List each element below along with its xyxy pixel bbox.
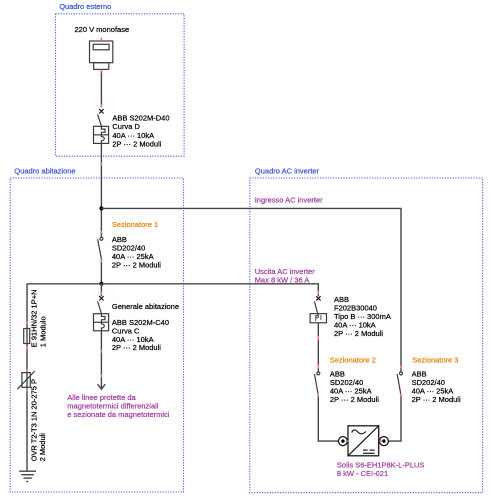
red endpoint tick below SW3 <box>400 394 402 397</box>
label SW1 values <box>112 235 161 269</box>
label SW2 values <box>330 369 379 404</box>
node junction B <box>99 282 103 286</box>
red endpoint tick below fuse F1 <box>26 346 28 350</box>
label Uscita AC inverter <box>255 267 316 285</box>
surge arrester SPD1 <box>17 371 34 389</box>
inverter right terminal <box>379 437 388 446</box>
enclosure Quadro abitazione dashed box <box>10 178 183 492</box>
enclosure Quadro esterno dashed box <box>56 14 185 156</box>
red endpoint tick above RCD D1 <box>317 291 319 294</box>
arrow to protected lines <box>98 353 106 390</box>
wire Uscita AC inverter <box>27 284 318 296</box>
svg-text:2P ··· 2 Moduli: 2P ··· 2 Moduli <box>334 329 383 338</box>
red endpoint tick below SW1 <box>100 259 102 262</box>
disconnector SW2 <box>315 372 320 396</box>
red endpoint tick above SW3 <box>400 366 402 369</box>
red endpoint tick on arrow <box>100 374 102 377</box>
energy meter M1 <box>90 41 113 69</box>
red endpoint tick above SW1 <box>100 231 102 234</box>
red endpoint tick below CB2 <box>100 350 102 353</box>
svg-text:8 kW - CEI-021: 8 kW - CEI-021 <box>337 469 388 478</box>
ground symbol <box>19 471 36 481</box>
wire SW1 to junction B <box>100 259 102 284</box>
RCD D1 lever <box>315 302 319 317</box>
breaker CB2 thermal-magnetic unit <box>94 314 109 331</box>
label CB2 values <box>112 318 169 352</box>
svg-text:2P ··· 2 Moduli: 2P ··· 2 Moduli <box>112 260 161 269</box>
red endpoint tick above meter <box>100 38 102 41</box>
wire CB1 to junction A <box>100 143 102 237</box>
fuse F1 <box>24 329 30 344</box>
wire left branch down <box>26 284 28 471</box>
wire Ingresso AC inverter <box>101 208 401 372</box>
svg-text:1 Modulo: 1 Modulo <box>39 316 48 347</box>
svg-text:E 91HN/32 1P+N: E 91HN/32 1P+N <box>30 289 39 347</box>
red endpoint tick below SPD1 <box>26 388 28 391</box>
label inverter values <box>337 461 425 479</box>
breaker CB2 lever <box>98 302 102 314</box>
svg-text:Ingresso AC inverter: Ingresso AC inverter <box>255 195 323 204</box>
svg-text:2P ··· 2 Moduli: 2P ··· 2 Moduli <box>112 139 161 148</box>
RCD D1 contact X <box>316 296 320 300</box>
red endpoint tick above SW2 <box>317 365 319 369</box>
disconnector SW1 <box>98 237 103 258</box>
label SW3 values <box>412 369 461 404</box>
svg-text:2P ··· 2 Moduli: 2P ··· 2 Moduli <box>112 343 161 352</box>
svg-text:Max 8 kW / 36 A: Max 8 kW / 36 A <box>255 276 310 285</box>
svg-text:Sezionatore 3: Sezionatore 3 <box>412 355 458 364</box>
svg-text:220 V monofase: 220 V monofase <box>75 25 130 34</box>
svg-text:Quadro AC inverter: Quadro AC inverter <box>255 166 320 175</box>
wire junction B to breaker CB2 <box>100 284 102 297</box>
wire meter to breaker CB1 <box>100 69 102 107</box>
svg-text:Quadro abitazione: Quadro abitazione <box>14 166 75 175</box>
svg-text:2 Moduli: 2 Moduli <box>38 433 47 462</box>
red endpoint tick above SPD1 <box>26 369 28 372</box>
label D1 values <box>334 295 391 338</box>
RCD D1 differential box <box>310 314 326 323</box>
wire SW3 to inverter right terminal <box>388 396 401 442</box>
breaker CB1 thermal-magnetic unit <box>94 126 109 143</box>
label SPD1 values (rotated) <box>30 379 48 461</box>
label F1 values (rotated) <box>30 289 48 347</box>
red endpoint tick inverter right <box>379 440 382 442</box>
red endpoint tick inverter left <box>346 440 349 442</box>
inverter U1 <box>348 426 379 456</box>
enclosure Quadro AC inverter dashed box <box>250 178 483 493</box>
red endpoint tick above fuse F1 <box>26 321 28 324</box>
svg-text:Sezionatore 1: Sezionatore 1 <box>112 220 158 229</box>
red endpoint tick below CB1 <box>100 162 102 165</box>
breaker CB2 contact X <box>99 296 103 300</box>
red endpoint tick below RCD D1 <box>317 336 319 340</box>
svg-text:2P ··· 2 Moduli: 2P ··· 2 Moduli <box>412 395 461 404</box>
red endpoint tick below meter <box>100 70 102 73</box>
node junction A <box>99 206 103 210</box>
svg-text:Quadro esterno: Quadro esterno <box>59 2 111 11</box>
label protected lines note <box>67 393 169 419</box>
disconnector SW3 <box>397 372 402 396</box>
wire CB2 down <box>100 331 102 353</box>
svg-text:Sezionatore 2: Sezionatore 2 <box>330 355 376 364</box>
breaker CB1 lever <box>98 114 102 126</box>
red endpoint tick above CB2 <box>100 291 102 294</box>
red endpoint tick below SW2 <box>317 394 319 397</box>
wire SW2 to inverter left terminal <box>318 396 338 442</box>
label CB1 values <box>112 114 169 149</box>
breaker CB1 contact X <box>99 109 103 113</box>
svg-text:e sezionate da magnetotermici: e sezionate da magnetotermici <box>67 410 169 419</box>
red endpoint tick above CB1 <box>100 104 102 107</box>
svg-text:2P ··· 2 Moduli: 2P ··· 2 Moduli <box>330 395 379 404</box>
svg-text:Generale abitazione: Generale abitazione <box>112 302 179 311</box>
inverter left terminal <box>338 437 347 446</box>
wire D1 to SW2 <box>317 323 319 372</box>
